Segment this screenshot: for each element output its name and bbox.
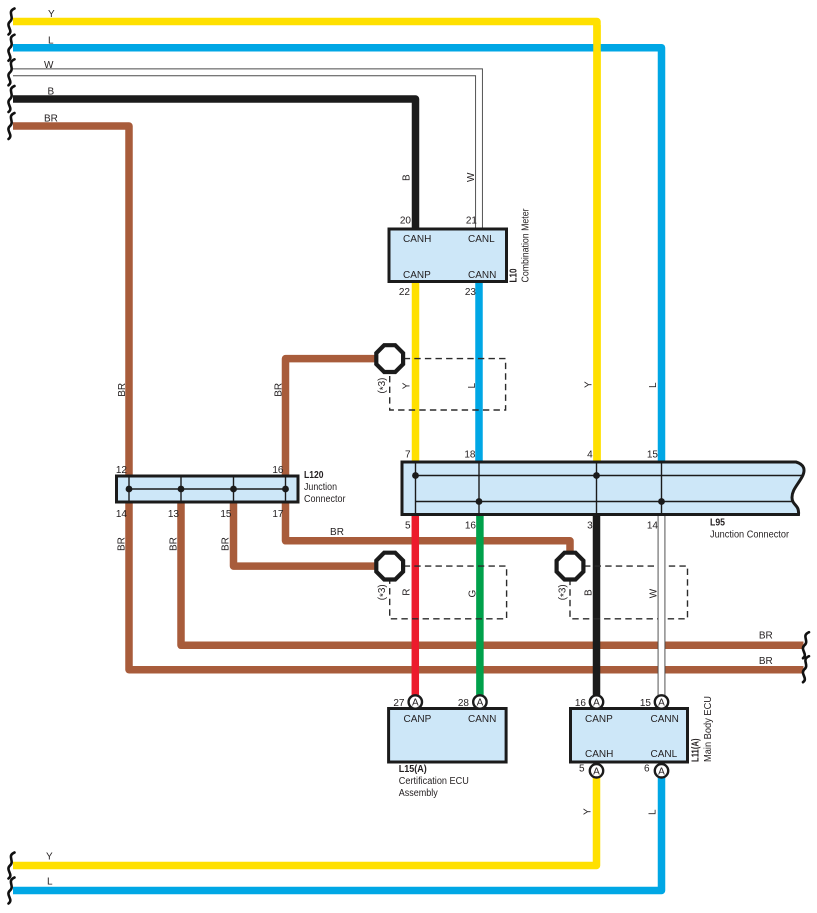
wire G L95 pin16 to L15 pin28 (476, 513, 484, 696)
svg-text:CANP: CANP (585, 714, 613, 725)
svg-text:Assembly: Assembly (399, 788, 438, 799)
connector L95 junction connector box (402, 462, 804, 515)
svg-text:A: A (477, 698, 484, 709)
svg-text:L120: L120 (304, 470, 324, 481)
svg-text:L10: L10 (509, 268, 520, 282)
svg-text:15: 15 (640, 698, 652, 709)
svg-text:BR: BR (759, 656, 773, 667)
svg-text:27: 27 (393, 698, 405, 709)
L95 pin numbers (405, 450, 658, 532)
label BR top-left (44, 114, 58, 125)
svg-text:BR: BR (169, 537, 180, 551)
svg-text:BR: BR (759, 631, 773, 642)
wire BR L120 pin13 to right edge (181, 501, 804, 645)
break squiggle Y bottom left (8, 853, 14, 879)
break squiggle B left (8, 86, 14, 112)
svg-text:Junction: Junction (304, 482, 337, 493)
wire BR L120 pin14 to right edge (129, 501, 804, 670)
label (*3) upper octagon (377, 378, 390, 394)
svg-text:R: R (402, 589, 413, 596)
svg-text:12: 12 (116, 465, 128, 476)
svg-text:BR: BR (44, 114, 58, 125)
label W rotated on vertical white wire (466, 172, 477, 182)
wire L L10 pin23 to L95 pin18 (475, 281, 483, 463)
svg-text:A: A (412, 698, 419, 709)
svg-text:Connector: Connector (304, 494, 346, 505)
wire Y top horizontal (13, 22, 597, 463)
connector L15(A) box (389, 709, 507, 763)
svg-text:15: 15 (220, 509, 232, 520)
svg-text:A: A (658, 698, 665, 709)
svg-text:B: B (583, 589, 594, 596)
label G rotated (468, 590, 479, 598)
L15(A) pin 28 circle A (458, 695, 487, 709)
break squiggle BR right row2 (803, 656, 809, 682)
svg-text:A: A (658, 766, 665, 777)
svg-text:CANH: CANH (403, 234, 431, 245)
svg-text:L: L (467, 383, 478, 389)
label BR rotated below L120 pin13 (169, 537, 180, 551)
svg-text:3: 3 (587, 520, 593, 531)
svg-text:B: B (402, 174, 413, 181)
svg-text:A: A (593, 766, 600, 777)
svg-text:(*3): (*3) (557, 584, 570, 600)
label W top-left (44, 60, 54, 71)
wire L L11 pin6 to bottom left (13, 778, 662, 891)
break squiggle BR right row1 (803, 632, 809, 658)
svg-text:Main Body ECU: Main Body ECU (703, 696, 714, 762)
svg-text:L95: L95 (710, 517, 725, 528)
label BR rotated second brown above L120 (274, 383, 285, 397)
wire B top horizontal to L10 pin 20 (13, 99, 416, 230)
L120 pin numbers (116, 465, 284, 520)
break squiggle W left (8, 59, 14, 85)
L15(A) name (399, 764, 469, 799)
svg-text:L15(A): L15(A) (399, 764, 427, 775)
svg-text:5: 5 (579, 764, 585, 775)
svg-text:(*3): (*3) (377, 584, 390, 600)
svg-text:L: L (48, 36, 54, 47)
L11(A) name (691, 696, 715, 762)
dashed box upper (Y/L twisted pair) (390, 359, 506, 410)
wire B L95 pin3 to L11 pin16 (593, 513, 601, 696)
svg-text:6: 6 (644, 764, 650, 775)
shield octagon 1 (376, 345, 403, 372)
label Y bottom-left (46, 852, 53, 863)
svg-text:A: A (593, 698, 600, 709)
L11(A) pin 16 circle A (575, 695, 603, 709)
label (*3) lower octagon 2 (557, 584, 570, 600)
label L rotated in upper dashed box (467, 383, 478, 389)
svg-text:23: 23 (465, 287, 477, 298)
svg-text:CANP: CANP (403, 270, 431, 281)
L95 junction dots (412, 472, 665, 505)
L95 name (710, 517, 790, 540)
break squiggle BR left (8, 113, 14, 139)
svg-text:L: L (648, 809, 659, 815)
label B top-left (48, 87, 55, 98)
wire R L95 pin5 to L15 pin27 (412, 513, 420, 696)
L11(A) pin 15 circle A (640, 695, 668, 709)
svg-text:CANL: CANL (651, 749, 678, 760)
wire W white top horizontal to L10 pin21 (13, 72, 479, 230)
label BR right edge row1 (759, 631, 773, 642)
svg-text:Certification ECU: Certification ECU (399, 776, 469, 787)
dashed box lower 1 (R/G twisted pair) (390, 566, 507, 619)
svg-text:28: 28 (458, 698, 470, 709)
label Y top-left (48, 9, 55, 20)
svg-text:W: W (44, 60, 54, 71)
svg-text:L: L (47, 877, 53, 888)
label Y rotated bottom yellow (583, 808, 594, 815)
svg-text:Y: Y (402, 382, 413, 389)
svg-text:16: 16 (465, 520, 477, 531)
label W rotated lower (649, 588, 660, 598)
svg-text:Y: Y (46, 852, 53, 863)
L15(A) pin 27 circle A (393, 695, 422, 709)
svg-text:Y: Y (583, 808, 594, 815)
shield octagon 2 (lower left) (376, 553, 403, 580)
wire L top horizontal (13, 48, 662, 462)
svg-text:15: 15 (647, 450, 659, 461)
label L top-left (48, 36, 54, 47)
svg-text:CANL: CANL (468, 234, 495, 245)
connector L10 box (389, 229, 507, 282)
label L bottom-left (47, 877, 53, 888)
wire W L95 pin14 to L11 pin15 (658, 513, 666, 697)
svg-text:BR: BR (117, 537, 128, 551)
svg-text:20: 20 (400, 216, 412, 227)
L120 name (304, 470, 346, 505)
break squiggle L bottom left (8, 878, 14, 904)
dashed box lower 2 (B/W twisted pair) (570, 566, 688, 619)
svg-text:CANN: CANN (468, 270, 496, 281)
wire Y L11 pin5 to bottom left (13, 778, 597, 866)
label BR rotated below L120 pin15 (221, 537, 232, 551)
svg-text:W: W (649, 588, 660, 598)
wire Y L10 pin22 to L95 pin7 (412, 281, 420, 463)
svg-text:BR: BR (221, 537, 232, 551)
svg-text:W: W (466, 172, 477, 182)
L11(A) pin 5 circle A (579, 764, 603, 778)
svg-text:CANN: CANN (468, 714, 496, 725)
L10 name (509, 208, 532, 283)
label B rotated on vertical black wire (402, 174, 413, 181)
svg-text:22: 22 (399, 287, 411, 298)
L120 junction dots (126, 486, 289, 493)
shield octagon 3 (lower right) (557, 553, 584, 580)
wire BR top-left to L120 pin 12 (13, 126, 129, 477)
connector L11(A) box (571, 709, 688, 763)
svg-text:CANN: CANN (651, 714, 679, 725)
L11(A) pin 6 circle A (644, 764, 668, 778)
svg-text:B: B (48, 87, 55, 98)
svg-text:17: 17 (272, 509, 284, 520)
svg-text:CANH: CANH (585, 749, 613, 760)
svg-text:21: 21 (466, 216, 478, 227)
svg-text:Y: Y (584, 381, 595, 388)
svg-text:G: G (468, 590, 479, 598)
svg-text:L11(A): L11(A) (691, 739, 702, 763)
label Y rotated in upper dashed box (402, 382, 413, 389)
label BR rotated left brown above L120 (117, 383, 128, 397)
wire BR L120 pin17 down right to shield octagon 3 (286, 501, 571, 553)
svg-text:Junction Connector: Junction Connector (710, 530, 790, 541)
svg-text:BR: BR (274, 383, 285, 397)
wire BR L120 pin16 up to shield octagon 1 (286, 359, 378, 477)
label (*3) lower octagon 1 (377, 584, 390, 600)
svg-text:CANP: CANP (404, 714, 432, 725)
wire BR L120 pin15 down to shield octagon 2 lower (234, 501, 378, 566)
svg-text:(*3): (*3) (377, 378, 390, 394)
break squiggle L left (8, 35, 14, 61)
label R rotated (402, 589, 413, 596)
svg-text:16: 16 (272, 465, 284, 476)
svg-text:4: 4 (587, 450, 593, 461)
svg-text:16: 16 (575, 698, 587, 709)
svg-text:13: 13 (168, 509, 180, 520)
label L rotated bottom blue (648, 809, 659, 815)
svg-text:L: L (648, 382, 659, 388)
svg-text:18: 18 (464, 450, 476, 461)
svg-text:5: 5 (405, 520, 411, 531)
yellow crossing over blue at corner (593, 25, 601, 462)
svg-text:14: 14 (647, 520, 659, 531)
break squiggle Y left (8, 9, 14, 35)
label BR right edge row2 (759, 656, 773, 667)
label Y rotated tall yellow (584, 381, 595, 388)
connector L120 junction connector box (117, 476, 299, 502)
svg-text:BR: BR (330, 527, 344, 538)
svg-text:BR: BR (117, 383, 128, 397)
L10 pin numbers (399, 216, 478, 299)
svg-text:Y: Y (48, 9, 55, 20)
label L rotated tall blue (648, 382, 659, 388)
label B rotated lower (583, 589, 594, 596)
svg-text:Combination Meter: Combination Meter (521, 208, 532, 283)
label BR horizontal on pin17 wire (330, 527, 344, 538)
svg-text:14: 14 (116, 509, 128, 520)
label BR rotated below L120 pin14 (117, 537, 128, 551)
svg-text:7: 7 (405, 450, 411, 461)
